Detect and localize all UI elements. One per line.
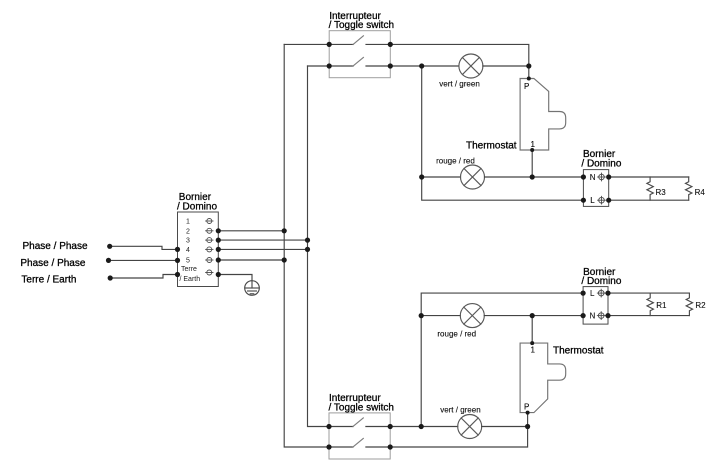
node TB2 N left xyxy=(581,174,586,179)
pin TH1 1 xyxy=(530,148,534,152)
wire N row (rouge lamp row) xyxy=(422,176,461,178)
switch S1 pole 2 xyxy=(329,57,390,66)
svg-text:/ Toggle switch: / Toggle switch xyxy=(329,20,394,31)
node TB3 L left xyxy=(581,291,586,296)
thermostat TH1 body xyxy=(520,79,566,151)
node TB1 left earth xyxy=(175,272,180,277)
TB1 screw 5 xyxy=(206,258,213,263)
TB1 screw 1 xyxy=(206,219,213,224)
svg-text:N: N xyxy=(590,312,596,321)
node TB2 L left xyxy=(581,198,586,203)
svg-text:1: 1 xyxy=(531,140,536,149)
node TB3 L right xyxy=(605,291,610,296)
svg-text:5: 5 xyxy=(186,258,190,265)
lamp LA2 rouge/red xyxy=(461,165,485,189)
wire phase1 feed xyxy=(110,246,178,249)
wire trunk1 vertical xyxy=(284,44,329,447)
node A xyxy=(526,63,531,68)
node trunk2 row4 xyxy=(305,247,310,252)
wire TB1 row2 to trunk1 xyxy=(218,230,284,232)
svg-text:N: N xyxy=(590,173,596,182)
svg-text:L: L xyxy=(590,196,595,205)
node TB1 left5 xyxy=(175,258,180,263)
wire S1 pole2 output through lamp row xyxy=(390,65,459,67)
node B xyxy=(419,63,424,68)
terminal TB2 N screw xyxy=(598,173,606,181)
wire lamp LA3 to bornier TB3 N xyxy=(484,315,583,317)
svg-text:/ Domino: / Domino xyxy=(581,158,621,169)
wire N row bottom (rouge lamp row) xyxy=(421,315,460,317)
wire TH2 pin1 to N row xyxy=(531,316,533,344)
switch S2 pole 2 xyxy=(329,438,390,447)
node phase1 end xyxy=(107,244,112,249)
resistor R3 xyxy=(647,177,653,200)
svg-text:2: 2 xyxy=(186,228,190,235)
wire lamp LA4 to node D xyxy=(482,426,528,428)
wire node B to L row xyxy=(422,177,584,200)
svg-text:Terre / Earth: Terre / Earth xyxy=(21,274,76,285)
svg-text:4: 4 xyxy=(186,247,190,254)
node N row left xyxy=(419,174,424,179)
svg-text:Thermostat: Thermostat xyxy=(466,141,517,152)
svg-text:L: L xyxy=(590,289,595,298)
node TB1 right3 xyxy=(216,238,221,243)
svg-text:vert / green: vert / green xyxy=(439,80,479,89)
wire S1 pole1 output to node A xyxy=(390,44,529,78)
toggle switch S2 box xyxy=(329,413,390,459)
svg-text:R3: R3 xyxy=(656,188,667,197)
svg-text:Thermostat: Thermostat xyxy=(553,345,604,356)
lamp LA4 vert/green xyxy=(458,415,482,439)
wire TB2 N to resistors top xyxy=(609,176,689,178)
wire TB1 row4 to trunk2 xyxy=(218,248,307,250)
svg-text:/ Toggle switch: / Toggle switch xyxy=(329,402,394,413)
svg-text:P: P xyxy=(524,82,529,91)
resistor R4 xyxy=(686,177,692,200)
node S1 in1 xyxy=(327,42,332,47)
node TB1 right2 xyxy=(216,228,221,233)
svg-text:/ Domino: / Domino xyxy=(581,276,621,287)
wire lamp LA1 to node A xyxy=(483,65,529,67)
node TB1 left4 xyxy=(175,247,180,252)
node S2 out1 xyxy=(388,424,393,429)
thermostat TH2 body xyxy=(520,343,566,413)
wire phase2 feed xyxy=(109,259,178,261)
node trunk1 row2 xyxy=(282,228,287,233)
node S2 in1 xyxy=(326,424,331,429)
wire branch node B down xyxy=(421,66,423,177)
svg-text:Terre: Terre xyxy=(181,266,197,273)
node S1 in2 xyxy=(327,63,332,68)
svg-text:vert / green: vert / green xyxy=(440,405,480,414)
wire TB3 L to resistors top xyxy=(608,292,689,294)
svg-text:3: 3 xyxy=(186,238,190,245)
wire earth feed xyxy=(110,275,177,279)
toggle switch S1 box xyxy=(329,31,390,78)
wire trunk1 top to switch S1 xyxy=(284,43,329,45)
bornier TB2 box xyxy=(583,170,608,207)
node TB2 N right xyxy=(606,174,611,179)
lamp LA3 rouge/red xyxy=(460,304,484,328)
svg-text:Phase / Phase: Phase / Phase xyxy=(20,258,85,269)
ground symbol xyxy=(245,281,260,296)
TB1 screw earth xyxy=(206,270,213,275)
node S2 out2 xyxy=(388,444,393,449)
node TB1 right4 xyxy=(216,247,221,252)
svg-text:R4: R4 xyxy=(695,188,706,197)
node rouge row mid xyxy=(530,313,535,318)
wire trunk2 top to switch S1 xyxy=(308,65,330,67)
node trunk1 row5 xyxy=(282,257,287,262)
TB1 screw 4 xyxy=(206,247,213,252)
terminal TB3 N screw xyxy=(597,312,605,320)
terminal TB3 L screw xyxy=(597,289,605,297)
svg-text:rouge / red: rouge / red xyxy=(437,330,476,339)
svg-text:1: 1 xyxy=(531,346,536,355)
pin TH2 P xyxy=(526,411,530,415)
svg-text:rouge / red: rouge / red xyxy=(436,157,475,166)
svg-text:1: 1 xyxy=(186,219,190,226)
TB1 screw 2 xyxy=(206,228,213,233)
svg-text:R2: R2 xyxy=(695,301,706,310)
wire L row bottom from node C xyxy=(421,293,583,426)
svg-text:P: P xyxy=(524,403,529,412)
terminal TB2 L screw xyxy=(598,196,606,204)
node rouge row left xyxy=(419,313,424,318)
bornier TB3 box xyxy=(583,287,608,325)
node S1 out2 xyxy=(388,63,393,68)
wire TB1 row3 to trunk2 xyxy=(218,239,307,241)
wire lamp LA2 to bornier TB2 N xyxy=(485,176,584,178)
node S1 out1 xyxy=(388,42,393,47)
node TB2 L right xyxy=(606,198,611,203)
wire TB1 earth to ground xyxy=(218,275,252,281)
left terminal block TB1 box xyxy=(178,212,219,287)
wire TH2 P pin down to green row xyxy=(390,413,527,447)
wire TH1 pin1 to N row xyxy=(531,150,533,177)
lamp LA1 vert/green xyxy=(459,54,483,78)
node trunk2 row3 xyxy=(305,238,310,243)
node N row mid xyxy=(530,174,535,179)
wire TB3 N to resistors bottom xyxy=(608,315,689,317)
wire TB2 L to resistors bottom xyxy=(609,199,689,201)
node S2 in2 xyxy=(326,444,331,449)
node TB3 N right xyxy=(605,313,610,318)
switch S1 pole 1 xyxy=(329,36,390,45)
resistor R1 xyxy=(647,293,653,316)
pin TH1 P xyxy=(527,77,531,81)
svg-text:R1: R1 xyxy=(656,301,667,310)
node D xyxy=(525,424,530,429)
pin TH2 1 xyxy=(530,341,534,345)
resistor R2 xyxy=(686,293,692,316)
node phase2 end xyxy=(106,258,111,263)
svg-text:/ Earth: / Earth xyxy=(180,276,201,283)
svg-text:Phase / Phase: Phase / Phase xyxy=(23,241,88,252)
wire trunk2 vertical xyxy=(308,66,330,427)
node TB3 N left xyxy=(581,313,586,318)
TB1 screw 3 xyxy=(206,238,213,243)
node earth end xyxy=(108,275,113,280)
node TB1 right earth xyxy=(216,272,221,277)
svg-text:/ Domino: / Domino xyxy=(177,201,217,212)
wire green row bottom xyxy=(390,426,458,428)
node TB1 right5 xyxy=(216,257,221,262)
switch S2 pole 1 xyxy=(329,418,390,427)
node green row left xyxy=(419,424,424,429)
wire TB1 row5 to trunk1 xyxy=(218,259,284,261)
